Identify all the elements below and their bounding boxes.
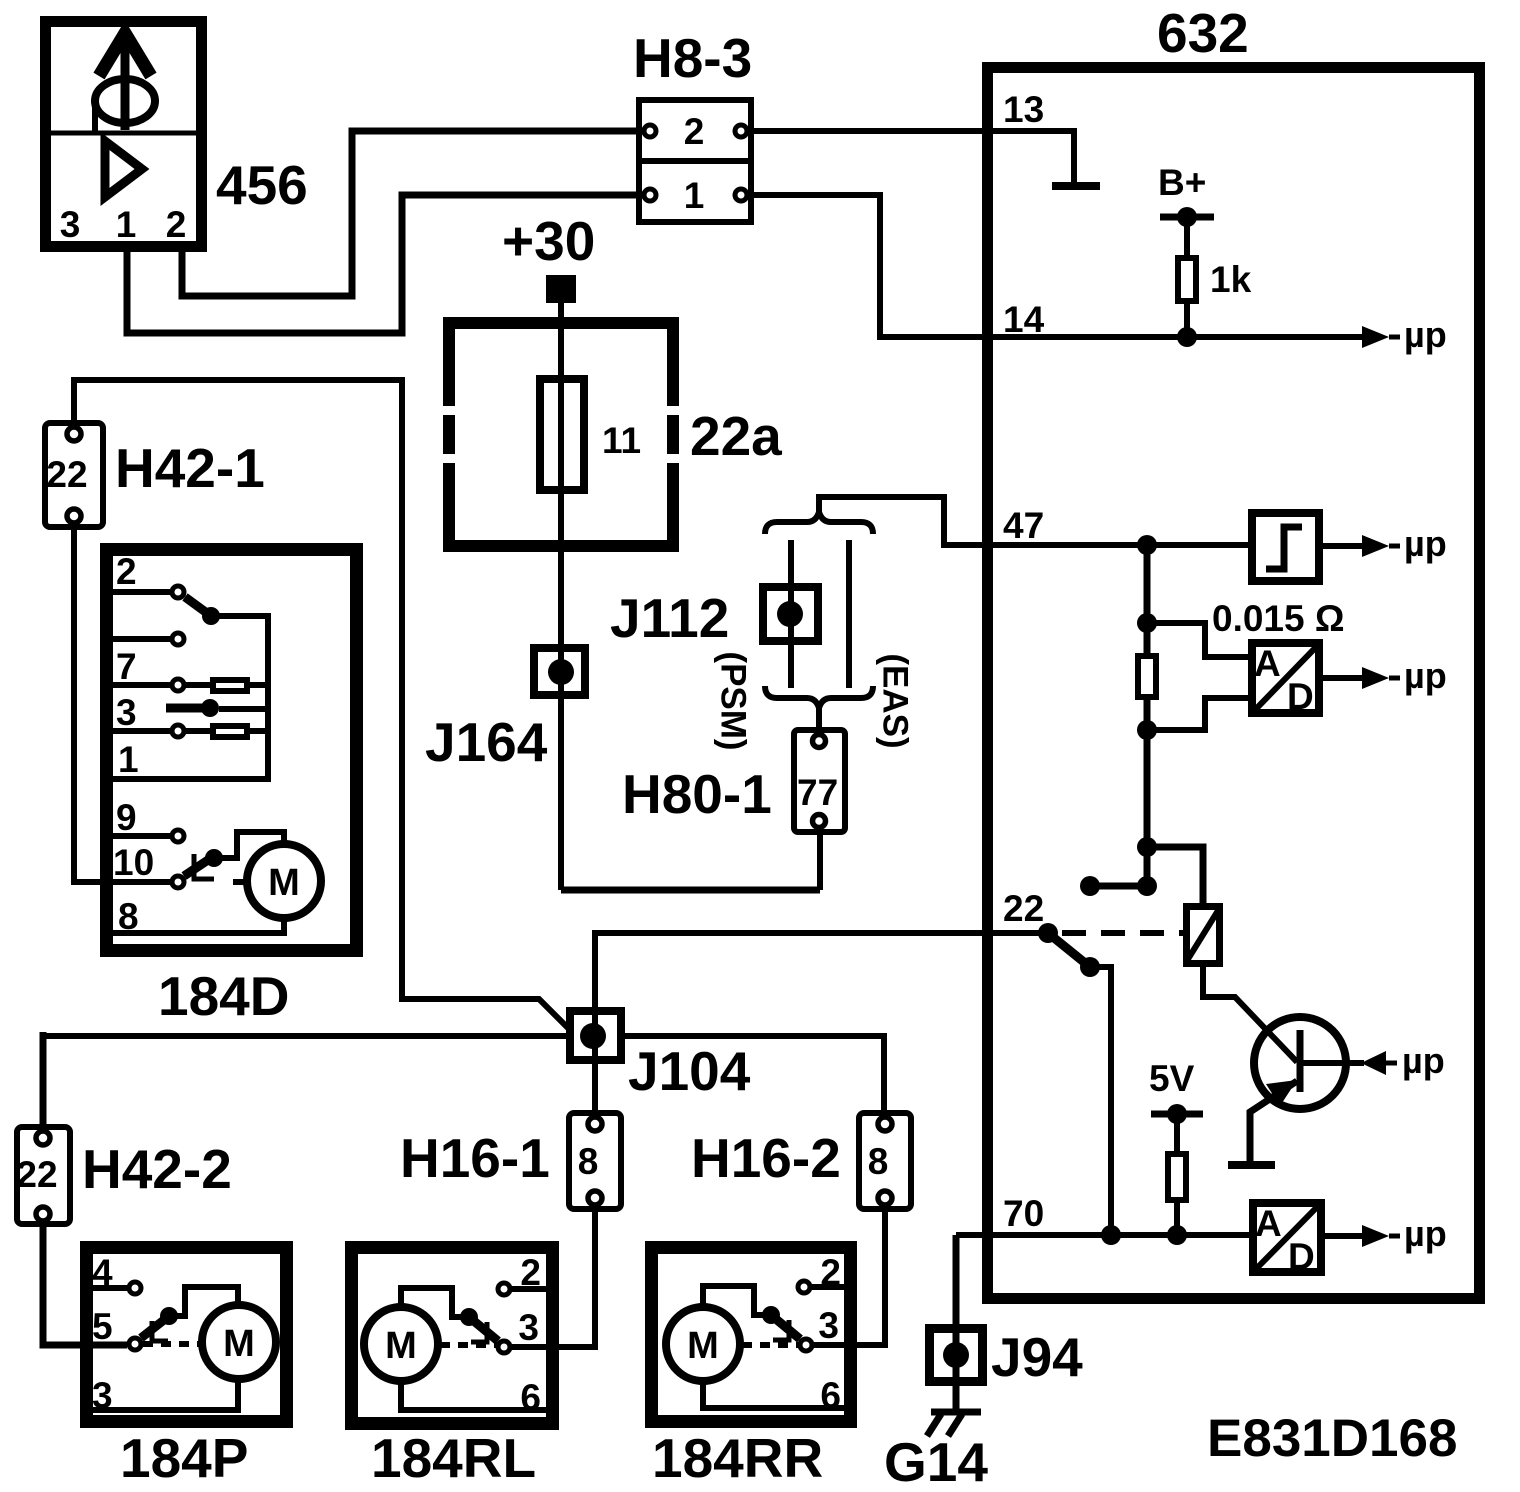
mirror motor unit 184P box <box>87 1248 287 1422</box>
mirror motor unit 184RL box <box>352 1248 553 1424</box>
svg-text:A: A <box>1255 1203 1282 1244</box>
transistor emitter + arrowhead <box>1250 1081 1297 1162</box>
ground G14 <box>931 1409 981 1416</box>
wire H42-2 to 184P pin5 <box>43 1224 127 1345</box>
wire EAS branch <box>846 540 852 688</box>
svg-text:47: 47 <box>1003 505 1044 546</box>
A/D converter lower <box>1253 1203 1321 1272</box>
svg-text:3: 3 <box>60 204 81 245</box>
svg-text:D: D <box>1287 676 1314 717</box>
svg-text:B+: B+ <box>1158 162 1206 203</box>
connector H42-1 <box>45 423 103 527</box>
brace upper (splits PSM/EAS) <box>765 512 873 534</box>
ECU 632 box <box>988 68 1480 1299</box>
B+ terminal <box>1160 214 1214 221</box>
svg-text:H42-2: H42-2 <box>82 1138 232 1200</box>
svg-text:1: 1 <box>116 204 137 245</box>
wire brace to H80-1 <box>816 708 822 733</box>
svg-text:9: 9 <box>116 797 137 838</box>
svg-text:11: 11 <box>602 420 641 461</box>
resistor 1k <box>1184 217 1190 255</box>
svg-text:+30: +30 <box>502 210 595 272</box>
svg-text:1k: 1k <box>1210 259 1252 300</box>
wire H42-1 pin22 to J104 <box>74 380 570 1030</box>
resistor at 5V <box>1174 1114 1180 1151</box>
svg-text:M: M <box>385 1325 417 1367</box>
svg-text:8: 8 <box>868 1141 889 1182</box>
uP arrow A/D lower <box>1362 1225 1389 1247</box>
svg-text:22: 22 <box>1003 888 1044 929</box>
fusebox 22a dashed border <box>443 317 679 329</box>
wire shunt top to A/D <box>1147 623 1248 657</box>
svg-text:8: 8 <box>578 1141 599 1182</box>
svg-text:J94: J94 <box>991 1326 1083 1388</box>
svg-text:2: 2 <box>116 551 137 592</box>
svg-text:5V: 5V <box>1149 1058 1195 1099</box>
svg-text:3: 3 <box>116 692 137 733</box>
uP arrow into transistor base <box>1361 1051 1386 1075</box>
connector H16-1 <box>569 1113 621 1209</box>
svg-text:13: 13 <box>1003 89 1044 130</box>
svg-text:J104: J104 <box>628 1040 751 1102</box>
junction J164 <box>534 648 585 695</box>
junction J94 <box>930 1329 983 1382</box>
wire switch to pin70 line <box>1090 967 1111 1235</box>
+30 terminal <box>546 275 576 303</box>
svg-text:(PSM): (PSM) <box>714 651 753 750</box>
svg-text:456: 456 <box>216 154 308 216</box>
svg-text:H8-3: H8-3 <box>633 27 752 89</box>
svg-text:10: 10 <box>113 842 154 883</box>
wire shunt bottom to A/D <box>1147 698 1248 730</box>
emitter ground <box>1228 1161 1275 1169</box>
junction on 47 line <box>1137 535 1157 555</box>
motor M in 184RR <box>666 1307 740 1381</box>
motor M in 184RL <box>364 1307 438 1381</box>
svg-text:184RL: 184RL <box>371 1427 536 1489</box>
wire 184P switch to motor <box>169 1287 238 1316</box>
svg-text:1: 1 <box>684 175 705 216</box>
svg-text:1: 1 <box>118 739 139 780</box>
shunt resistor 0.015 ohm <box>1144 545 1151 653</box>
svg-text:J112: J112 <box>610 587 729 649</box>
wire H8-3 pin1 to 632 pin14 <box>749 195 1362 337</box>
svg-text:2: 2 <box>684 111 705 152</box>
mirror motor unit 184RR box <box>652 1248 851 1422</box>
wire 47 from brace to schmitt <box>819 497 1248 545</box>
wire J104 to H16-2 <box>625 1036 884 1114</box>
svg-text:H16-1: H16-1 <box>400 1127 550 1189</box>
uP arrow schmitt <box>1362 535 1389 557</box>
wire 184RL switch to motor <box>401 1288 469 1317</box>
svg-text:J164: J164 <box>425 711 548 773</box>
svg-text:H80-1: H80-1 <box>622 763 772 825</box>
wire pin70 line <box>956 1232 1249 1238</box>
svg-text:3: 3 <box>518 1307 539 1348</box>
svg-text:22: 22 <box>46 454 87 495</box>
svg-text:M: M <box>687 1325 719 1367</box>
184D unlabeled contact <box>113 636 170 642</box>
wire to relay coil <box>1147 847 1203 903</box>
svg-text:µp: µp <box>1404 1213 1447 1254</box>
mirror actuator 184D box <box>107 550 357 951</box>
svg-text:M: M <box>223 1323 255 1365</box>
456 arrow icon <box>121 34 130 130</box>
junction to relay coil <box>1137 837 1157 857</box>
svg-text:22: 22 <box>16 1154 57 1195</box>
brace lower (joins to H80-1) <box>765 686 873 708</box>
svg-text:E831D168: E831D168 <box>1207 1409 1457 1468</box>
wire 632 pin22 to J104 and H16-1 <box>595 933 1048 1114</box>
svg-text:A: A <box>1254 643 1281 684</box>
wire H16-2 to 184RR pin3 <box>814 1208 885 1345</box>
svg-text:(EAS): (EAS) <box>876 653 915 748</box>
svg-text:µp: µp <box>1404 523 1447 564</box>
wire H80-1 to fuse line <box>817 828 823 890</box>
motor M in 184P <box>202 1305 276 1379</box>
schmitt trigger block <box>1252 513 1319 581</box>
dashed link pin22 to relay <box>1062 930 1183 936</box>
junction J112 <box>763 587 818 641</box>
svg-text:3: 3 <box>818 1305 839 1346</box>
svg-text:M: M <box>268 862 300 904</box>
svg-text:µp: µp <box>1404 655 1447 696</box>
svg-text:2: 2 <box>166 204 187 245</box>
H8-3 pin circles <box>644 125 656 137</box>
wire 456 pin2 to H8-3 pin2 <box>182 131 643 296</box>
wire relay to transistor collector <box>1203 967 1297 1062</box>
wire +30 through fuse down to H80-1 return line <box>558 303 564 890</box>
184D selector bus <box>113 616 268 779</box>
svg-text:184P: 184P <box>120 1427 248 1489</box>
wire 184RR switch to motor <box>703 1286 771 1315</box>
wire 184D switch to motor <box>214 832 284 858</box>
svg-text:77: 77 <box>797 772 838 813</box>
connector H8-3 box <box>639 100 751 222</box>
svg-text:0.015 Ω: 0.015 Ω <box>1212 598 1345 639</box>
fuse 11 <box>540 379 584 490</box>
5V terminal <box>1151 1111 1203 1118</box>
svg-text:7: 7 <box>116 646 137 687</box>
junction J104 <box>570 1011 621 1060</box>
wire 456 pin1 to H8-3 pin1 <box>127 195 643 333</box>
relay coil <box>1187 907 1220 964</box>
svg-text:70: 70 <box>1003 1193 1044 1234</box>
wire J104 to H42-2 <box>43 1033 566 1039</box>
svg-text:H42-1: H42-1 <box>115 437 265 499</box>
component 456 box <box>46 22 202 247</box>
wire PSM branch <box>788 540 794 688</box>
svg-text:µp: µp <box>1404 314 1447 355</box>
wire H16-1 to 184RL pin3 <box>512 1208 595 1347</box>
connector H42-2 <box>17 1127 70 1224</box>
456 triangle icon <box>105 141 142 197</box>
junction on pin14 line <box>1177 327 1197 347</box>
motor M in 184D <box>247 844 321 918</box>
svg-text:632: 632 <box>1157 2 1249 64</box>
wire J164 line to H80-1 return <box>561 887 820 894</box>
uP arrow pin14 <box>1362 326 1389 348</box>
svg-text:µp: µp <box>1402 1040 1445 1081</box>
svg-text:22a: 22a <box>690 405 782 467</box>
svg-text:184RR: 184RR <box>652 1427 823 1489</box>
svg-text:14: 14 <box>1003 299 1045 340</box>
svg-text:184D: 184D <box>158 965 289 1027</box>
svg-text:H16-2: H16-2 <box>691 1127 841 1189</box>
svg-text:G14: G14 <box>884 1431 988 1492</box>
wire H8-3 pin2 to 632 pin13 <box>749 128 1074 134</box>
uP arrow A/D upper <box>1362 667 1389 689</box>
svg-text:5: 5 <box>92 1306 113 1347</box>
connector H16-2 <box>859 1113 911 1209</box>
relay upper contact node <box>1137 876 1157 896</box>
wire H42-1 to 184D pin10 <box>74 526 170 882</box>
svg-text:D: D <box>1288 1236 1315 1277</box>
wire J94 to 632 pin70 <box>953 1235 960 1412</box>
wire H42-2 top <box>40 1032 47 1128</box>
